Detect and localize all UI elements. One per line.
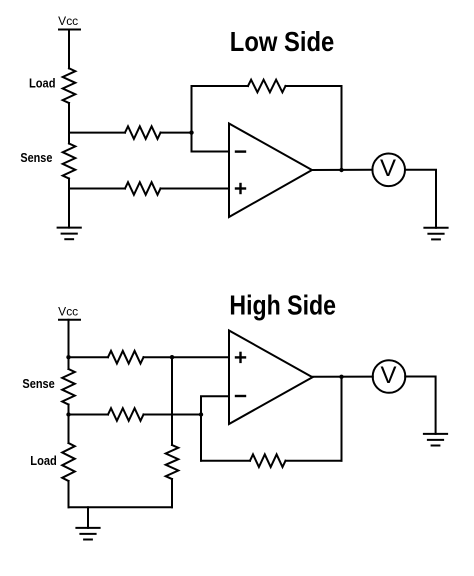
wire R1 to op-amp plus (high side): [144, 356, 230, 358]
svg-text:Sense: Sense: [22, 377, 54, 391]
Vcc power bar: [59, 29, 80, 31]
svg-text:Vcc: Vcc: [58, 16, 78, 28]
resistor Load (low side): [63, 68, 76, 103]
wire junction down to inverting input: [192, 133, 230, 152]
wire feedback down (high side): [200, 415, 202, 461]
op-amp U1: [229, 124, 312, 218]
wire node1 to R1 (high side): [69, 356, 109, 358]
U2 minus sign: [236, 395, 245, 397]
resistor Sense (high side): [62, 369, 75, 405]
svg-text:High Side: High Side: [229, 290, 336, 321]
wire Load to bottom rail: [68, 481, 70, 507]
wire mid branch down: [171, 357, 173, 445]
resistor R1 (high side, to plus input): [108, 351, 144, 364]
voltmeter V1: [372, 154, 405, 187]
svg-text:Load: Load: [29, 77, 56, 91]
wire junction to inverting input (high side): [201, 396, 229, 414]
wire R2 to junction minus: [144, 414, 202, 416]
wire node1 to R1: [69, 132, 125, 134]
wire feedback bottom left: [201, 460, 250, 462]
wire feedback top right: [286, 85, 342, 87]
wire Vcc to node1: [68, 320, 70, 369]
junction node output: [339, 168, 343, 172]
wire voltmeter to ground (high side): [405, 377, 435, 434]
svg-text:Low Side: Low Side: [230, 26, 334, 57]
svg-text:Load: Load: [30, 454, 57, 468]
junction node inverting: [189, 130, 193, 134]
wire ground stem (high side left): [87, 507, 89, 528]
wire node2 to R2: [69, 188, 125, 190]
wire R2 to op-amp plus: [161, 188, 230, 190]
junction node output (high side): [339, 375, 343, 379]
wire R1 to junction: [161, 132, 192, 134]
wire voltmeter to ground: [405, 170, 436, 228]
wire feedback bottom right: [286, 460, 342, 462]
svg-text:V: V: [380, 155, 396, 182]
resistor R2 (high side, to minus input): [108, 408, 144, 421]
U1 minus sign: [236, 150, 245, 152]
wire junction up to feedback: [191, 86, 193, 133]
U1 plus sign: [236, 187, 245, 189]
wire feedback up to output: [341, 377, 343, 461]
wire feedback top left: [192, 85, 249, 87]
junction node mid branch: [170, 355, 174, 359]
resistor R2 (to non-inverting input): [125, 182, 161, 195]
U2 plus sign: [236, 356, 245, 358]
resistor Load (high side): [62, 443, 75, 481]
resistor mid branch (high side): [166, 445, 179, 479]
wire Sense to ground: [68, 179, 70, 228]
resistor R1 (to inverting input): [125, 126, 161, 139]
Vcc power bar (high side): [59, 319, 80, 321]
svg-text:Sense: Sense: [20, 151, 52, 165]
junction node lower rail: [66, 412, 70, 416]
wire output: [312, 169, 373, 171]
wire feedback down to output: [341, 86, 343, 170]
svg-text:Vcc: Vcc: [58, 306, 78, 318]
resistor feedback (low side): [248, 80, 286, 93]
resistor Sense (low side): [63, 144, 76, 179]
op-amp U2: [229, 331, 313, 425]
wire output (high side): [313, 376, 373, 378]
resistor feedback (high side): [250, 454, 286, 467]
wire bottom rail: [69, 506, 173, 508]
ground (high side left): [76, 527, 99, 529]
wire node2 to R2 (high side): [69, 414, 109, 416]
wire Sense to node2: [68, 405, 70, 444]
wire Load to Sense: [68, 103, 70, 144]
junction node top rail: [66, 355, 70, 359]
wire Vcc to Load: [68, 30, 70, 69]
voltmeter V2: [373, 360, 406, 393]
svg-text:V: V: [380, 362, 396, 389]
ground (high side right): [424, 433, 447, 435]
junction node inverting (high side): [199, 412, 203, 416]
wire mid resistor to bottom rail: [171, 479, 173, 507]
ground (low side left): [58, 227, 81, 229]
ground (low side right): [424, 227, 447, 229]
